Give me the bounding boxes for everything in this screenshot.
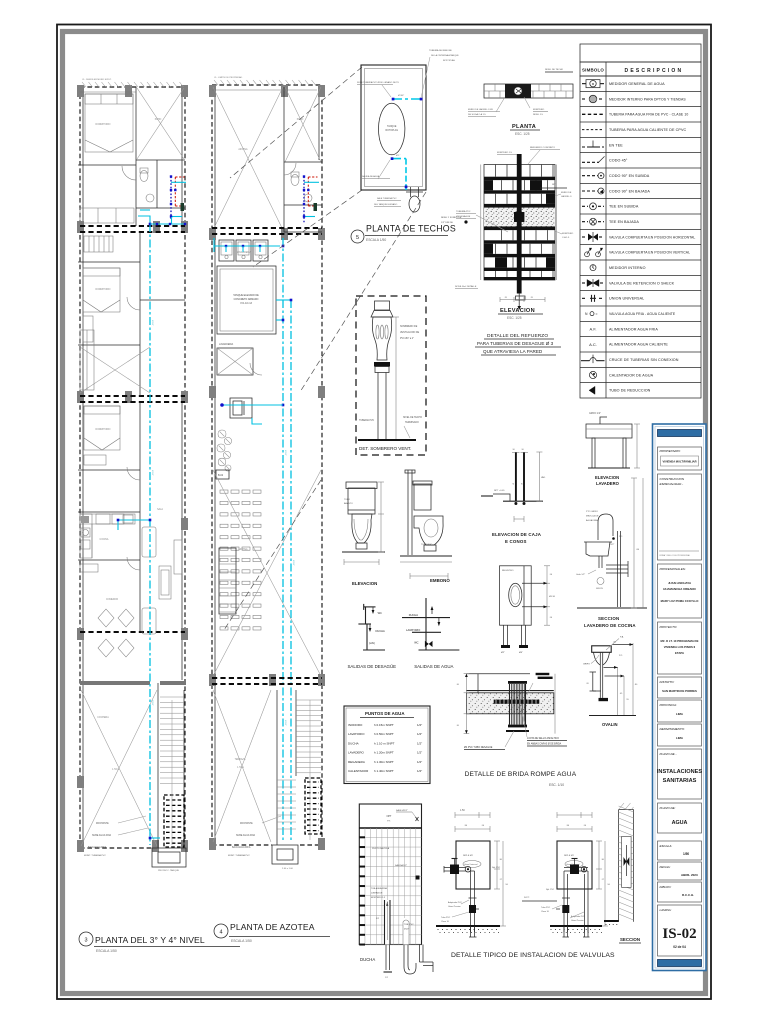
svg-text:ABASTO: ABASTO	[344, 502, 353, 505]
svg-text:INODORO: INODORO	[348, 723, 363, 727]
concrete stipple band elevacion	[484, 207, 555, 226]
brida upper extension lines	[466, 673, 530, 675]
valve node bath plan4	[303, 189, 305, 191]
ovalin horizontal dims	[604, 666, 618, 668]
seccion gate valve front symbol	[625, 845, 627, 876]
lavadero legs	[592, 438, 595, 468]
legend symbol row 21	[589, 386, 595, 394]
legend symbol row 2	[582, 98, 587, 100]
svg-text:NPT: NPT	[387, 815, 392, 818]
column plan4	[318, 674, 325, 686]
svg-text:PVC Ø4" a 2": PVC Ø4" a 2"	[400, 338, 414, 340]
planter shrubs plan4	[218, 430, 226, 438]
svg-text:NPT: NPT	[552, 184, 557, 186]
toilet bath1 plan3	[140, 171, 148, 182]
cold water branch kitchen plan3	[118, 520, 150, 530]
svg-text:1/2": 1/2"	[417, 760, 422, 764]
cold water branch top plan3	[138, 216, 150, 224]
brida slab top double line	[466, 690, 553, 692]
plan4 title group	[214, 922, 330, 943]
column plan4	[318, 386, 325, 398]
valve node bath1 plan3	[170, 215, 172, 217]
svg-text:PROYECC. TANQUE: PROYECC. TANQUE	[158, 869, 179, 872]
stair treads plan4	[276, 690, 278, 845]
sombrero dashed box	[356, 296, 426, 455]
brida slab stippled band	[466, 693, 553, 714]
svg-text:h 0.50m SNPT: h 0.50m SNPT	[374, 732, 394, 736]
stair lower treads plan4	[277, 779, 296, 781]
svg-text:.20: .20	[586, 683, 590, 685]
svg-text:CALENTADOR DE AGUA: CALENTADOR DE AGUA	[609, 373, 654, 377]
svg-text:h 1.10 m SNPT: h 1.10 m SNPT	[374, 741, 395, 745]
valveA top dim lines	[455, 814, 490, 816]
svg-text:PLANTA DE AZOTEA: PLANTA DE AZOTEA	[230, 922, 315, 932]
ovalin under arcs	[594, 652, 601, 665]
svg-text:PATIO: PATIO	[297, 118, 304, 121]
wire left inner wall line plan3	[82, 90, 84, 845]
svg-text:ELEVACION: ELEVACION	[595, 475, 619, 480]
valve node bath1 plan3	[174, 189, 176, 191]
svg-text:N: N	[585, 312, 588, 316]
svg-text:Ø1/2": Ø1/2"	[404, 929, 410, 931]
patio cross brace mid plan3	[80, 347, 150, 393]
closet lines plan3	[80, 330, 94, 390]
svg-text:2.00 x 1.00: 2.00 x 1.00	[282, 868, 294, 870]
svg-text:LAVADERO: LAVADERO	[348, 751, 365, 755]
legend row divider 14	[580, 290, 701, 292]
brick wall outline elevacion	[484, 165, 555, 281]
legend symbol row 4	[582, 129, 604, 131]
tank outlet leader	[378, 160, 390, 179]
legend row divider 11	[580, 244, 701, 246]
svg-text:EN AMBAS CARAS Ø DE BRIDA: EN AMBAS CARAS Ø DE BRIDA	[527, 743, 562, 746]
svg-text:ELEVACION DE CAJA: ELEVACION DE CAJA	[492, 532, 542, 537]
valve node bath plan4	[303, 215, 305, 217]
ducha trap symbol 3 elbow right	[419, 945, 421, 963]
svg-text:FIRMA Y SELLO DEL PROFESIONAL: FIRMA Y SELLO DEL PROFESIONAL	[660, 554, 691, 557]
reference dashed line to tank detail 1	[230, 67, 362, 178]
column plan3	[77, 840, 84, 852]
svg-text:PROVINCIA:: PROVINCIA:	[660, 703, 678, 707]
sumidero bottom pipe stubs	[503, 625, 505, 645]
svg-text:TUB AGUA FRIA: TUB AGUA FRIA	[371, 887, 387, 890]
vent lantern body	[372, 317, 391, 360]
svg-text:B-02: B-02	[218, 474, 224, 477]
ducha trap symbol 1	[385, 945, 387, 971]
valveB ground line and hatch	[550, 925, 602, 927]
tv cabinet plan3	[174, 540, 182, 574]
svg-text:SANITARIAS: SANITARIAS	[663, 778, 697, 784]
legend header row	[580, 62, 701, 76]
brida rompe agua detail group	[456, 673, 577, 787]
svg-text:Clase 10: Clase 10	[441, 921, 450, 923]
svg-text:TUBO PVC: TUBO PVC	[421, 544, 433, 546]
salidas de agua symbols group	[425, 598, 427, 650]
svg-text:QUE ATRAVIESA LA PARED: QUE ATRAVIESA LA PARED	[483, 349, 543, 354]
vent leader arrow	[404, 426, 410, 438]
title block top blue bar	[658, 430, 702, 437]
elevated tank room plan4	[217, 266, 276, 334]
column plan3	[77, 221, 84, 233]
plan3 title circle 3	[79, 932, 93, 946]
tank drain trap	[410, 187, 412, 197]
svg-text:h 1.40m SNPT: h 1.40m SNPT	[374, 769, 394, 773]
toilet1 base	[356, 543, 367, 549]
toilet2 dims	[410, 575, 448, 577]
legend row divider 4	[580, 136, 701, 138]
wall bedroom2 top plan3	[78, 261, 140, 263]
valveB union circle	[581, 866, 587, 872]
svg-text:LAMINA:: LAMINA:	[660, 908, 672, 912]
svg-text:MURO DE: MURO DE	[561, 192, 572, 194]
valve node laundry plan4	[259, 245, 261, 247]
field departamento	[658, 724, 702, 746]
column plan3	[153, 221, 160, 233]
svg-text:1.50m: 1.50m	[237, 765, 244, 769]
bed unit2 plan3	[83, 268, 120, 312]
column plan3	[152, 840, 159, 852]
column plan3	[181, 221, 188, 233]
svg-text:Ø 3/4": Ø 3/4"	[284, 450, 286, 456]
roof cross brace lower plan4	[213, 470, 321, 676]
svg-text:.10: .10	[456, 725, 460, 727]
svg-text:ELEVACION: ELEVACION	[352, 581, 377, 586]
svg-text:LAVADERO DE COCINA: LAVADERO DE COCINA	[584, 623, 636, 628]
svg-text:CODO 90° EN BAJADA: CODO 90° EN BAJADA	[609, 189, 650, 193]
valve node laundry plan4	[242, 245, 244, 247]
pipe bottom collar elevacion	[516, 296, 526, 300]
brida flange bar	[494, 700, 540, 704]
svg-text:PLANO DE:: PLANO DE:	[660, 806, 676, 810]
caja dim right	[538, 452, 540, 501]
roof bath fixtures plan4	[291, 175, 299, 186]
valveA niche box	[456, 841, 490, 889]
svg-text:CRUCE DE TUBERIAS SIN CONEXION: CRUCE DE TUBERIAS SIN CONEXION	[609, 358, 679, 362]
roof plan azotea group	[209, 85, 325, 870]
wall heavy garage top plan3	[80, 681, 150, 685]
wire right outer wall plan3	[184, 87, 186, 848]
legend body border	[580, 76, 701, 398]
svg-text:PROPIETARIO:: PROPIETARIO:	[660, 449, 681, 453]
svg-text:SALIDA 1/2": SALIDA 1/2"	[395, 864, 407, 867]
sink bath1 plan3	[146, 194, 154, 202]
wall bath bottom plan4	[284, 231, 322, 233]
column plan4	[318, 85, 325, 97]
svg-text:TUBO DE REDUCCION: TUBO DE REDUCCION	[609, 389, 651, 393]
svg-text:JUNTAS DE: JUNTAS DE	[371, 892, 383, 895]
sumidero inner divider	[523, 566, 525, 625]
svg-text:D E S C R I P C I O N: D E S C R I P C I O N	[625, 68, 682, 74]
lavadero dim	[636, 424, 638, 468]
title underline	[365, 235, 448, 237]
brick black mortar bands elevacion	[484, 177, 555, 180]
vent slot	[376, 325, 379, 339]
cold water riser pipe B plan4	[290, 300, 292, 842]
pipe joint blob elevacion	[514, 212, 524, 222]
svg-text:Union Presion: Union Presion	[571, 920, 584, 922]
svg-text:DORMITORIO: DORMITORIO	[96, 289, 111, 291]
ducha trap symbol 2 deep seal	[404, 945, 416, 975]
svg-text:SAN MARTIN DE PORRES: SAN MARTIN DE PORRES	[662, 689, 697, 693]
tank detail inner wall	[365, 69, 423, 187]
svg-text:A.F.: A.F.	[590, 327, 597, 332]
field plano de	[658, 749, 702, 799]
tank inlet leader	[382, 85, 391, 97]
field lamina	[658, 905, 702, 956]
tank ellipse	[379, 103, 405, 155]
toilet2 tank	[414, 484, 431, 510]
svg-text:.10: .10	[512, 449, 515, 451]
door arcs plan3	[122, 166, 136, 180]
svg-text:h 0.15m SNPT: h 0.15m SNPT	[374, 723, 394, 727]
svg-text:TANQUE ELEVADO DE: TANQUE ELEVADO DE	[233, 294, 259, 297]
svg-text:ESPECIALIDAD -: ESPECIALIDAD -	[660, 482, 684, 486]
cold water branches bath plan4	[304, 181, 319, 183]
wire slab joint dashed plan3	[80, 225, 185, 227]
wire slab joint dashed plan3	[80, 401, 185, 403]
stub foot 2	[519, 645, 528, 648]
svg-text:A.C.: A.C.	[589, 342, 597, 347]
svg-text:SIFON: SIFON	[596, 588, 603, 590]
ducha left edge dark ticks	[359, 836, 365, 838]
kitchen appliance dark marks plan3	[81, 516, 89, 523]
laundry tubs plan4	[219, 240, 234, 261]
waste stack dotted blue bath1 plan3	[170, 177, 172, 221]
wall hall divider plan3	[140, 299, 185, 301]
tank inlet pipe cyan	[393, 98, 421, 100]
svg-text:DEPARTAMENTO:: DEPARTAMENTO:	[660, 727, 685, 731]
wire bottom wall right plan4	[300, 844, 322, 846]
ovalin right dim verticals	[617, 667, 619, 715]
svg-text:SUBE AGUA FRIA: SUBE AGUA FRIA	[92, 834, 111, 837]
svg-text:Ø 3/4": Ø 3/4"	[151, 320, 153, 326]
svg-text:REGADERA: REGADERA	[348, 760, 365, 764]
legend symbol row 10	[582, 221, 588, 223]
valveB top manifold pipe	[564, 867, 588, 869]
svg-text:Ø4 PVC TUBO DESAGUE: Ø4 PVC TUBO DESAGUE	[464, 746, 493, 749]
planta pipe circle arrow	[514, 87, 522, 95]
svg-text:.10: .10	[549, 617, 553, 619]
column plan4	[281, 228, 288, 240]
roof cross brace large plan4	[213, 87, 283, 230]
ovalin counter bar	[592, 646, 612, 653]
column plan3	[125, 85, 132, 97]
svg-text:ESCALA 1/50: ESCALA 1/50	[231, 939, 252, 943]
lavadero basin	[586, 424, 632, 438]
svg-text:.15: .15	[504, 297, 508, 299]
brida level marks	[536, 673, 550, 675]
valve node bath plan4	[307, 189, 309, 191]
sofa plan3	[80, 208, 134, 223]
svg-text:AZOTEA: AZOTEA	[238, 148, 248, 151]
valve node laundry plan4	[225, 245, 227, 247]
svg-text:M: M	[512, 483, 514, 485]
armchair plan3	[142, 608, 156, 634]
svg-text:Ø 1": Ø 1"	[396, 155, 401, 157]
wardrobe plan3	[83, 316, 93, 342]
svg-text:EN TEE: EN TEE	[609, 143, 623, 147]
svg-text:NPT +0.05: NPT +0.05	[494, 490, 505, 492]
valveA lower valve blob	[469, 905, 476, 913]
puntos table border	[344, 706, 430, 784]
ducha black outlet square	[416, 876, 420, 880]
svg-text:SOMBRERO DE: SOMBRERO DE	[400, 326, 418, 328]
svg-text:DETALLE TIPICO DE INSTALACION: DETALLE TIPICO DE INSTALACION DE VALVULA…	[451, 952, 615, 959]
svg-text:REGISTRO: REGISTRO	[502, 570, 514, 572]
legend symbol row 8	[582, 190, 598, 192]
waste stack dotted blue bath plan4	[303, 177, 305, 225]
title block outer border	[653, 424, 707, 971]
column plan4	[269, 674, 276, 686]
svg-text:DIBUJO:: DIBUJO:	[660, 885, 672, 889]
svg-text:Adaptador PVC: Adaptador PVC	[448, 901, 462, 904]
legend symbol row 7	[582, 175, 598, 177]
svg-text:PROYECTO:: PROYECTO:	[660, 625, 678, 629]
svg-text:PUNTOS DE AGUA: PUNTOS DE AGUA	[365, 711, 405, 716]
valve node riser plan3	[149, 519, 152, 522]
svg-text:VAR.: VAR.	[541, 476, 546, 479]
field profesionales	[658, 564, 702, 618]
svg-text:FECHA:: FECHA:	[660, 865, 671, 869]
legend symbol row 13	[590, 265, 596, 271]
field provincia	[658, 700, 702, 722]
svg-text:Ø0.30: Ø0.30	[549, 596, 556, 598]
cocina gooseneck faucet	[598, 514, 613, 540]
svg-text:DUCHA: DUCHA	[409, 613, 418, 617]
planta center dark bricks	[505, 84, 531, 98]
field fecha	[658, 862, 702, 880]
valve node riser plan3	[117, 519, 120, 522]
svg-text:COCHERA: COCHERA	[97, 716, 109, 719]
toilet elevation detail group	[342, 470, 452, 586]
valveB lower valve blob	[562, 905, 569, 913]
valve node riser plan4	[282, 404, 285, 407]
elevacion lavadero detail group	[586, 413, 640, 486]
sofa living plan3	[142, 527, 156, 557]
column plan3	[181, 628, 188, 640]
valveA supply pipe horizontal	[444, 867, 466, 869]
valveB right vertical pipe	[584, 874, 586, 932]
svg-text:.80: .80	[635, 684, 639, 686]
sumidero box detail	[500, 566, 532, 625]
svg-text:h 1.30m SNPT: h 1.30m SNPT	[374, 760, 394, 764]
wall kitchen top plan3	[78, 511, 140, 513]
svg-text:Tubo PVC: Tubo PVC	[541, 907, 551, 909]
svg-text:NIVEL 1:5: NIVEL 1:5	[533, 114, 544, 116]
svg-text:MORTERO 1:5: MORTERO 1:5	[497, 152, 513, 154]
patio cross brace upper plan3	[137, 88, 184, 159]
svg-text:.17: .17	[601, 879, 605, 881]
column plan3	[181, 518, 188, 530]
elevacion right arrow ledger	[540, 187, 567, 189]
svg-text:LAVATORIO: LAVATORIO	[406, 628, 420, 632]
caja spacing symbol	[513, 516, 515, 522]
wall stair left plan3	[157, 683, 159, 848]
svg-text:ESCALA:: ESCALA:	[660, 844, 673, 848]
brick joint planta	[527, 84, 529, 91]
legend row divider 2	[580, 106, 701, 108]
brick elevacion detail group	[456, 147, 573, 355]
svg-text:.10: .10	[456, 684, 460, 686]
svg-text:.80: .80	[636, 549, 640, 551]
svg-text:DORMITORIO: DORMITORIO	[96, 124, 111, 126]
valveA below-ground pipe end	[470, 926, 472, 937]
svg-text:BAJA AGUA FRIA: BAJA AGUA FRIA	[232, 846, 251, 849]
wall corridor vertical lower plan3	[139, 402, 141, 632]
svg-text:VALVULA DE RETENCION O SHECK: VALVULA DE RETENCION O SHECK	[609, 281, 675, 285]
svg-text:CONSTRUCCION: CONSTRUCCION	[660, 477, 685, 481]
svg-text:MZ. D LT. 10 PROGRAMA DE: MZ. D LT. 10 PROGRAMA DE	[661, 639, 699, 643]
svg-text:Ø 3/4": Ø 3/4"	[151, 470, 153, 476]
salida desague stepped pipe	[364, 606, 376, 608]
svg-text:TEE EN BAJADA: TEE EN BAJADA	[609, 220, 639, 224]
caja pipes	[515, 452, 517, 501]
caja pipe top dims	[512, 452, 520, 454]
svg-text:COCINA: COCINA	[100, 538, 109, 541]
cold water riser pipe plan3 (agua fria)	[149, 224, 151, 845]
column plan3	[181, 85, 188, 97]
tank outlet pipe cyan	[392, 158, 406, 160]
svg-text:MURO DE LADRILLO KK: MURO DE LADRILLO KK	[468, 108, 494, 111]
svg-text:AGUA: AGUA	[672, 820, 688, 826]
toilet2 base and floor	[424, 545, 436, 551]
sumidero dims	[546, 566, 548, 625]
toilet1 dims	[380, 482, 382, 552]
column plan3	[181, 391, 188, 403]
svg-text:Npl. PVC: Npl. PVC	[546, 889, 555, 891]
legend symbol row 12	[585, 252, 590, 257]
planta leader left	[496, 97, 505, 112]
svg-text:DUCHA: DUCHA	[360, 957, 375, 962]
svg-text:.30: .30	[464, 825, 468, 827]
tank feed pipe plan4	[276, 299, 291, 301]
svg-text:COMEDOR: COMEDOR	[106, 599, 118, 601]
seccion ground stub	[604, 920, 619, 922]
svg-text:Tubo PVC: Tubo PVC	[441, 917, 451, 919]
svg-text:VALVULA COMPUERTA EN POSICION: VALVULA COMPUERTA EN POSICION HORIZONTAL	[609, 235, 695, 239]
cocina floor line	[577, 607, 647, 609]
field dibujo	[658, 882, 702, 902]
wall kitchen bottom plan3	[78, 559, 140, 561]
svg-text:MEZCLA DE: MEZCLA DE	[586, 515, 599, 518]
svg-text:CONCRETO ARMADO: CONCRETO ARMADO	[234, 298, 259, 301]
svg-text:PUNTO MEZCLA: PUNTO MEZCLA	[372, 847, 390, 850]
svg-text:DETALLE DE BRIDA ROMPE AGU: DETALLE DE BRIDA ROMPE AGUA	[465, 771, 577, 778]
valveB niche box	[557, 841, 592, 889]
svg-text:.10: .10	[521, 449, 524, 451]
wall patio1 bottom plan3	[136, 159, 185, 161]
legend row divider 3	[580, 121, 701, 123]
door arcs plan4	[284, 163, 296, 175]
svg-text:P.C.: P.C.	[619, 655, 623, 657]
ducha outer box	[359, 804, 421, 945]
svg-text:DETALLE DEL REFUERZO: DETALLE DEL REFUERZO	[487, 333, 548, 339]
ovalin left bracket dim	[592, 672, 594, 691]
svg-text:C:A 1:5: C:A 1:5	[562, 236, 570, 239]
svg-text:SALIDA DE AGUA: SALIDA DE AGUA	[362, 175, 380, 178]
svg-text:NIPLE Ø2: NIPLE Ø2	[564, 855, 575, 857]
cold water branch bottom plan3	[150, 837, 160, 839]
svg-text:MEDIDOR INTERNO PARA DPTOS: MEDIDOR INTERNO PARA DPTOS Y TIENDAS	[609, 97, 686, 101]
field distrito	[658, 677, 702, 698]
leader line to tank labels	[421, 57, 430, 98]
fixture blob bath1 plan3	[181, 203, 185, 211]
svg-text:.10: .10	[481, 825, 485, 827]
wire slab joint plan4	[212, 233, 322, 235]
cocina supply pipes stack	[606, 564, 628, 566]
valve node bath1 plan3	[170, 175, 172, 177]
elevacion bottom dim line	[500, 299, 545, 301]
